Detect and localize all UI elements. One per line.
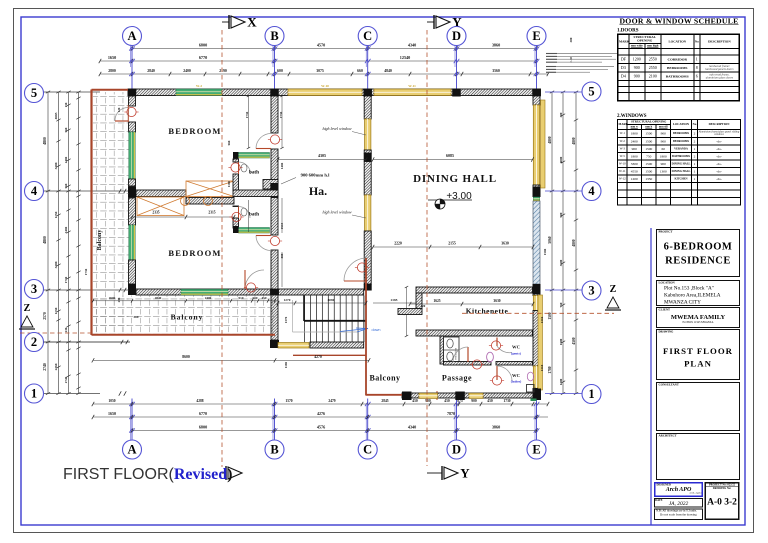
svg-text:960: 960 xyxy=(64,127,68,132)
svg-text:3: 3 xyxy=(31,282,37,296)
svg-text:high level window: high level window xyxy=(322,210,351,215)
svg-text:960: 960 xyxy=(227,140,231,145)
svg-text:4005: 4005 xyxy=(54,112,58,119)
svg-text:120: 120 xyxy=(421,304,426,308)
svg-text:2335: 2335 xyxy=(152,211,159,215)
svg-text:1150: 1150 xyxy=(54,211,58,218)
svg-text:12540: 12540 xyxy=(400,55,410,60)
svg-text:bath: bath xyxy=(249,212,259,218)
svg-text:8600: 8600 xyxy=(182,355,190,359)
svg-text:X: X xyxy=(247,15,257,30)
svg-text:4800: 4800 xyxy=(43,137,47,145)
svg-text:1318: 1318 xyxy=(540,364,544,371)
svg-text:4340: 4340 xyxy=(408,43,416,48)
svg-text:6800: 6800 xyxy=(199,43,207,48)
svg-text:4800: 4800 xyxy=(572,239,576,246)
svg-text:Balcony: Balcony xyxy=(97,230,103,251)
svg-text:6770: 6770 xyxy=(199,55,207,60)
svg-text:450: 450 xyxy=(412,399,418,403)
svg-text:2740: 2740 xyxy=(43,363,47,371)
svg-text:(ladies): (ladies) xyxy=(511,380,522,384)
svg-text:Z: Z xyxy=(24,303,31,314)
svg-text:Z: Z xyxy=(610,284,617,295)
svg-text:2740: 2740 xyxy=(64,376,68,383)
svg-text:3860: 3860 xyxy=(492,43,500,48)
svg-text:3860: 3860 xyxy=(492,425,500,430)
svg-text:6800: 6800 xyxy=(199,425,207,430)
svg-text:3630: 3630 xyxy=(501,242,509,246)
svg-text:2185: 2185 xyxy=(391,298,398,302)
svg-text:3400: 3400 xyxy=(54,162,58,169)
svg-text:600: 600 xyxy=(253,296,258,300)
svg-text:4288: 4288 xyxy=(196,399,203,403)
svg-text:4500: 4500 xyxy=(572,337,576,344)
svg-text:900 600mm h.l: 900 600mm h.l xyxy=(301,173,330,178)
svg-text:W-2: W-2 xyxy=(196,84,202,88)
svg-text:3630: 3630 xyxy=(493,299,500,303)
svg-text:4800: 4800 xyxy=(548,136,552,143)
svg-text:910: 910 xyxy=(239,296,244,300)
svg-text:1625: 1625 xyxy=(433,299,440,303)
svg-text:600: 600 xyxy=(277,69,283,73)
svg-text:2845: 2845 xyxy=(381,399,388,403)
svg-text:high level window: high level window xyxy=(322,126,351,131)
svg-text:2360: 2360 xyxy=(54,363,58,370)
svg-text:2220: 2220 xyxy=(394,242,402,246)
svg-text:7870: 7870 xyxy=(447,411,455,416)
svg-text:3080: 3080 xyxy=(328,298,335,302)
svg-text:1190: 1190 xyxy=(284,361,288,368)
svg-text:E: E xyxy=(532,443,540,457)
svg-text:900: 900 xyxy=(471,399,477,403)
svg-text:1: 1 xyxy=(31,387,37,401)
svg-text:4305: 4305 xyxy=(318,153,326,158)
svg-text:C: C xyxy=(363,29,372,43)
svg-text:1650: 1650 xyxy=(108,411,116,416)
svg-text:4840: 4840 xyxy=(384,69,392,73)
svg-text:bath: bath xyxy=(249,170,259,176)
svg-text:1500: 1500 xyxy=(543,248,547,255)
svg-text:4570: 4570 xyxy=(317,43,325,48)
svg-text:4270: 4270 xyxy=(314,355,322,359)
svg-text:BEDROOM: BEDROOM xyxy=(168,126,221,136)
svg-text:Passage: Passage xyxy=(442,374,472,383)
svg-text:4576: 4576 xyxy=(317,425,325,430)
svg-text:1400: 1400 xyxy=(280,162,284,169)
svg-text:(gents): (gents) xyxy=(511,352,521,356)
svg-text:1190: 1190 xyxy=(227,180,231,187)
svg-text:2190: 2190 xyxy=(219,69,227,73)
svg-text:750: 750 xyxy=(559,302,563,307)
svg-text:1730: 1730 xyxy=(64,276,68,283)
svg-text:3400: 3400 xyxy=(64,226,68,233)
svg-text:450: 450 xyxy=(262,296,267,300)
svg-text:1370: 1370 xyxy=(284,316,288,323)
svg-text:2400: 2400 xyxy=(183,69,191,73)
svg-text:+3.00: +3.00 xyxy=(446,191,472,202)
svg-text:450: 450 xyxy=(487,399,493,403)
svg-text:3600: 3600 xyxy=(559,259,563,266)
svg-text:2: 2 xyxy=(31,335,37,349)
svg-text:WC: WC xyxy=(512,345,520,350)
svg-text:4000: 4000 xyxy=(559,156,563,163)
svg-text:960: 960 xyxy=(64,183,68,188)
svg-text:Balcony: Balcony xyxy=(369,374,400,383)
svg-text:2800: 2800 xyxy=(108,69,116,73)
svg-text:2400: 2400 xyxy=(64,156,68,163)
svg-text:300: 300 xyxy=(559,112,563,117)
svg-text:1730: 1730 xyxy=(503,399,510,403)
svg-text:D: D xyxy=(452,443,461,457)
svg-text:3560: 3560 xyxy=(492,69,500,73)
svg-text:2840: 2840 xyxy=(155,296,162,300)
svg-text:4: 4 xyxy=(31,184,38,198)
svg-text:150: 150 xyxy=(64,102,68,107)
svg-text:1200: 1200 xyxy=(559,378,563,385)
svg-text:3400: 3400 xyxy=(54,261,58,268)
svg-text:4: 4 xyxy=(588,184,595,198)
svg-text:900: 900 xyxy=(425,399,431,403)
svg-text:B: B xyxy=(270,443,278,457)
svg-text:6770: 6770 xyxy=(199,411,207,416)
svg-text:300: 300 xyxy=(569,37,573,42)
svg-text:Balcony: Balcony xyxy=(171,313,204,322)
svg-text:2570: 2570 xyxy=(43,312,47,320)
svg-text:1730: 1730 xyxy=(84,268,88,275)
svg-text:A: A xyxy=(127,443,136,457)
svg-text:A: A xyxy=(127,29,136,43)
svg-text:120: 120 xyxy=(117,107,121,112)
svg-text:W-10: W-10 xyxy=(321,84,329,88)
svg-text:Kitchenette: Kitchenette xyxy=(466,307,509,316)
svg-text:1130: 1130 xyxy=(54,307,58,314)
svg-text:1650: 1650 xyxy=(108,55,116,60)
svg-text:4340: 4340 xyxy=(408,425,416,430)
svg-text:2600: 2600 xyxy=(109,296,116,300)
svg-text:3: 3 xyxy=(588,284,594,298)
svg-text:DINING HALL: DINING HALL xyxy=(413,173,497,185)
svg-text:3075: 3075 xyxy=(316,69,324,73)
svg-text:1780: 1780 xyxy=(548,366,552,373)
svg-text:2840: 2840 xyxy=(147,69,155,73)
svg-text:230: 230 xyxy=(117,297,121,302)
svg-text:1270: 1270 xyxy=(284,298,291,302)
svg-text:1570: 1570 xyxy=(285,399,292,403)
svg-text:1730: 1730 xyxy=(279,111,283,118)
svg-text:D: D xyxy=(452,29,461,43)
svg-text:E: E xyxy=(532,29,540,43)
svg-text:660: 660 xyxy=(357,69,363,73)
svg-text:2479: 2479 xyxy=(328,399,335,403)
svg-text:5: 5 xyxy=(588,85,594,99)
svg-text:ventilation: ventilation xyxy=(455,347,458,360)
svg-text:1316: 1316 xyxy=(540,316,544,323)
svg-text:1050: 1050 xyxy=(108,399,115,403)
svg-text:450: 450 xyxy=(444,399,450,403)
svg-text:1: 1 xyxy=(588,387,594,401)
svg-text:4276: 4276 xyxy=(317,411,325,416)
svg-text:4800: 4800 xyxy=(572,137,576,144)
svg-text:4800: 4800 xyxy=(43,236,47,244)
svg-text:Ha.: Ha. xyxy=(309,184,327,198)
svg-text:WC: WC xyxy=(512,373,520,378)
svg-text:B: B xyxy=(270,29,278,43)
svg-text:2155: 2155 xyxy=(448,242,456,246)
svg-text:5: 5 xyxy=(31,86,37,100)
svg-text:Y: Y xyxy=(460,466,470,481)
svg-text:2315: 2315 xyxy=(208,211,215,215)
svg-text:230: 230 xyxy=(64,327,68,332)
svg-text:6085: 6085 xyxy=(446,153,454,158)
svg-text:1500: 1500 xyxy=(559,338,563,345)
svg-text:2400: 2400 xyxy=(205,296,212,300)
svg-text:5060: 5060 xyxy=(548,236,552,243)
svg-text:360: 360 xyxy=(134,315,139,319)
svg-text:BEDROOM: BEDROOM xyxy=(168,248,221,258)
svg-text:C: C xyxy=(363,443,372,457)
svg-text:W-11: W-11 xyxy=(408,84,416,88)
svg-text:900: 900 xyxy=(559,212,563,217)
svg-text:down: down xyxy=(371,328,380,332)
